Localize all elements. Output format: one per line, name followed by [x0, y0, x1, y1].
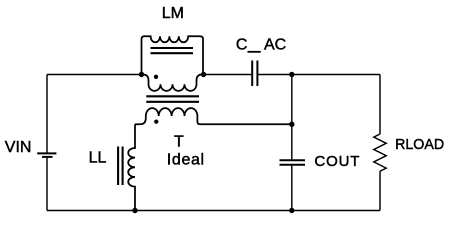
svg-text:LM: LM — [162, 5, 184, 22]
svg-text:LL: LL — [89, 149, 107, 166]
svg-text:Ideal: Ideal — [167, 152, 205, 169]
svg-text:VIN: VIN — [5, 139, 32, 156]
svg-text:T: T — [174, 134, 184, 151]
svg-text:AC: AC — [264, 37, 286, 54]
svg-text:COUT: COUT — [314, 153, 360, 170]
svg-text:RLOAD: RLOAD — [395, 136, 444, 153]
svg-text:C: C — [236, 37, 248, 54]
